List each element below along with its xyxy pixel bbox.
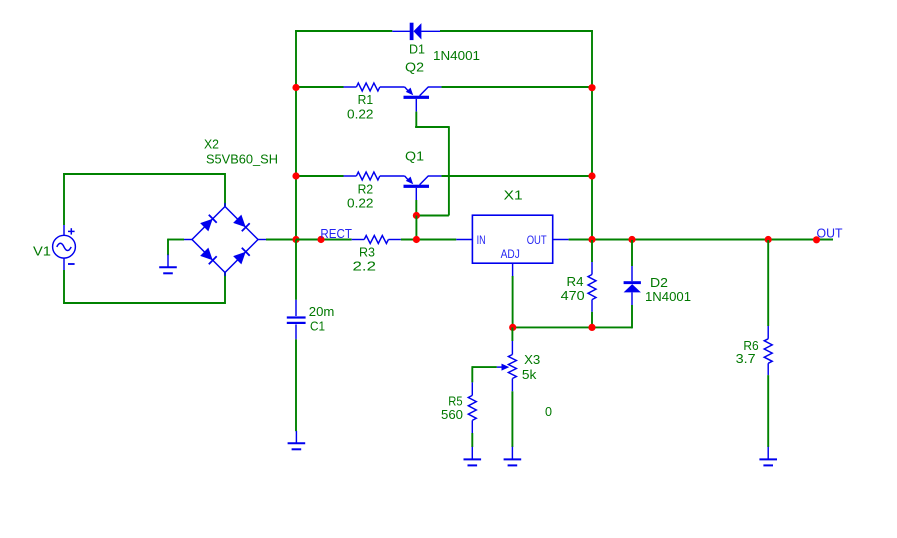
label R3 value 2.2 xyxy=(353,260,377,274)
wire left rail xyxy=(295,30,297,240)
wire bridge top lead xyxy=(224,173,226,206)
transistor Q1 xyxy=(404,176,442,188)
junction left-Q2row xyxy=(292,84,299,91)
wire Q1 base xyxy=(416,188,449,216)
wire bridge to RECT node xyxy=(266,239,296,241)
svg-text:RECT: RECT xyxy=(320,227,352,241)
net label RECT xyxy=(320,227,352,241)
resistor R5 xyxy=(468,366,476,447)
label R6 value 3.7 xyxy=(736,352,756,366)
label R2 value 0.22 xyxy=(347,196,374,210)
ground R6 xyxy=(759,447,777,466)
junction left-Q1row xyxy=(292,172,299,179)
wire X1 ADJ lead xyxy=(512,263,514,327)
resistor R4 xyxy=(588,240,596,328)
svg-text:470: 470 xyxy=(561,289,585,303)
bridge diode upper-left xyxy=(200,215,217,232)
junction OUT-rail xyxy=(588,236,595,243)
wire X1 OUT lead xyxy=(553,239,569,241)
label C1 value 20m xyxy=(309,305,335,319)
label V1 xyxy=(33,245,51,259)
svg-text:2.2: 2.2 xyxy=(353,260,377,274)
diode D1 xyxy=(392,23,440,40)
label R4 value 470 xyxy=(561,289,585,303)
junction RECT-C1 xyxy=(292,236,299,243)
svg-text:0.22: 0.22 xyxy=(347,196,374,210)
resistor R3 xyxy=(352,236,401,244)
junction ADJ-rail xyxy=(588,324,595,331)
regulator X1 box xyxy=(472,215,552,263)
svg-text:C1: C1 xyxy=(310,320,325,334)
label Q2 xyxy=(405,60,424,74)
label R1 xyxy=(358,93,374,107)
wire OUT row xyxy=(569,239,833,241)
resistor R6 xyxy=(764,240,772,447)
wire Q2 row left xyxy=(296,86,344,88)
pin label IN xyxy=(477,235,486,247)
svg-text:R5: R5 xyxy=(448,394,462,408)
label D2 value 1N4001 xyxy=(645,290,691,304)
svg-text:R1: R1 xyxy=(358,93,374,107)
junction right-Q2row xyxy=(588,84,595,91)
junction OUT-D2 xyxy=(628,236,635,243)
resistor R1 xyxy=(344,83,405,91)
net label RECT marker xyxy=(317,236,324,243)
label X2 xyxy=(204,137,219,151)
label R3 xyxy=(359,245,375,259)
wire top rail left xyxy=(295,30,392,32)
wire Q2 base xyxy=(415,99,449,216)
label X1 xyxy=(504,189,523,203)
label S5VB60_SH xyxy=(206,152,278,166)
label R1 value 0.22 xyxy=(347,107,374,121)
wire ADJ bottom row xyxy=(513,326,632,328)
svg-text:S5VB60_SH: S5VB60_SH xyxy=(206,152,278,166)
net label 0 xyxy=(545,405,552,419)
wire V1 top rail xyxy=(63,173,225,225)
label R4 xyxy=(567,275,584,289)
junction ADJ-X3 xyxy=(509,324,516,331)
wire RECT segment xyxy=(296,239,352,241)
net label OUT xyxy=(817,227,843,241)
svg-text:D2: D2 xyxy=(650,276,668,290)
bridge diode lower-right xyxy=(233,248,250,265)
svg-text:1N4001: 1N4001 xyxy=(645,290,691,304)
wire V1 bottom rail xyxy=(63,270,225,304)
diode D2 xyxy=(624,240,641,328)
svg-text:ADJ: ADJ xyxy=(501,249,520,261)
wire X1 IN lead xyxy=(456,239,472,241)
svg-text:X3: X3 xyxy=(524,353,540,367)
label R5 xyxy=(448,394,462,408)
svg-text:3.7: 3.7 xyxy=(736,352,756,366)
svg-text:Q1: Q1 xyxy=(405,149,424,163)
junction right-Q1row xyxy=(588,172,595,179)
pin label ADJ xyxy=(501,249,520,261)
wire bridge to ground xyxy=(168,239,184,256)
ground bridge xyxy=(159,255,177,274)
label D1 value 1N4001 xyxy=(433,49,480,63)
wire R3 to X1 xyxy=(401,239,456,241)
svg-text:IN: IN xyxy=(477,235,486,247)
ground C1 xyxy=(288,431,306,449)
capacitor C1 xyxy=(287,300,306,340)
label R5 value 560 xyxy=(441,408,463,422)
svg-text:0.22: 0.22 xyxy=(347,107,374,121)
svg-text:1N4001: 1N4001 xyxy=(433,49,480,63)
svg-text:OUT: OUT xyxy=(527,235,547,247)
svg-text:R4: R4 xyxy=(567,275,584,289)
label R2 xyxy=(358,182,374,196)
wire Q1 row left xyxy=(296,175,344,177)
label X3 value 5k xyxy=(522,368,537,382)
svg-text:Q2: Q2 xyxy=(405,60,424,74)
junction R3-X1 node xyxy=(413,236,420,243)
ground R5 xyxy=(464,447,482,466)
label D1 xyxy=(409,42,425,56)
pin label OUT xyxy=(527,235,547,247)
wire C1 bottom xyxy=(295,339,297,431)
svg-text:R2: R2 xyxy=(358,182,374,196)
svg-text:20m: 20m xyxy=(309,305,335,319)
junction base node xyxy=(413,212,420,219)
svg-text:5k: 5k xyxy=(522,368,537,382)
svg-text:X1: X1 xyxy=(504,189,523,203)
right rail xyxy=(591,30,593,240)
svg-text:X2: X2 xyxy=(204,137,219,151)
svg-text:D1: D1 xyxy=(409,42,425,56)
junction OUT-R6 xyxy=(765,236,772,243)
wire C1 top xyxy=(295,240,297,300)
wire top rail right xyxy=(440,30,593,32)
potentiometer X3 xyxy=(508,327,516,447)
label R6 xyxy=(743,339,758,353)
wire bridge bottom lead xyxy=(224,272,226,304)
svg-text:560: 560 xyxy=(441,408,463,422)
bridge diode upper-right xyxy=(233,215,250,232)
svg-text:0: 0 xyxy=(545,405,552,419)
svg-text:V1: V1 xyxy=(33,245,51,259)
svg-text:OUT: OUT xyxy=(817,227,843,241)
ground X3 xyxy=(504,447,522,466)
label X3 xyxy=(524,353,540,367)
wire base to RECT node xyxy=(415,216,417,240)
transistor Q2 xyxy=(404,87,442,99)
net terminal OUT marker xyxy=(813,236,820,243)
potentiometer X3 wiper xyxy=(472,364,509,371)
bridge diode lower-left xyxy=(200,248,217,265)
svg-text:R3: R3 xyxy=(359,245,375,259)
wire Q2 row right xyxy=(441,86,592,88)
wire Q1 row right xyxy=(441,175,592,177)
ac source V1 xyxy=(53,225,76,270)
resistor R2 xyxy=(344,172,405,180)
label C1 xyxy=(310,320,325,334)
label Q1 xyxy=(405,149,424,163)
bridge rectifier X2 xyxy=(184,203,266,276)
label D2 xyxy=(650,276,668,290)
